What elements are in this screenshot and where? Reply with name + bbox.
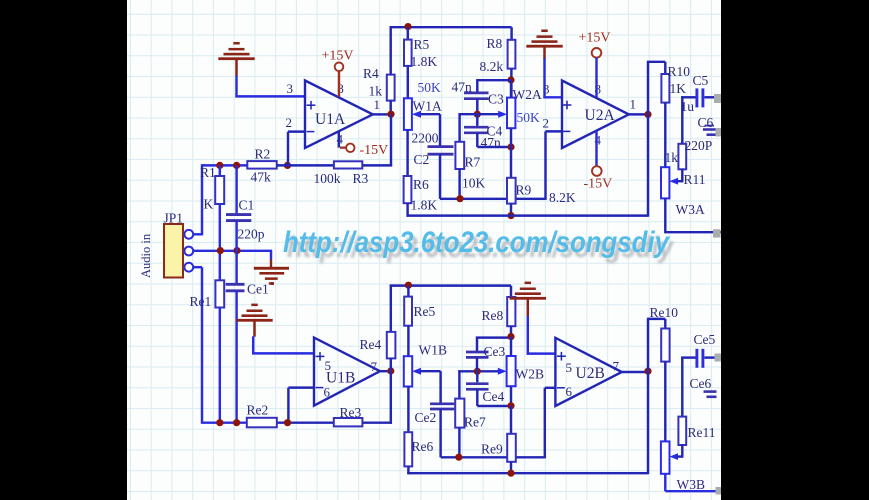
node: output of U1A <box>387 111 394 118</box>
wire: JP1 pin1 up to input node <box>193 164 248 235</box>
wire: G1 to U1A pin3 <box>235 76 305 98</box>
svg-text:W2A: W2A <box>513 87 542 102</box>
potentiometer W1A <box>404 80 442 130</box>
op-amp U1A <box>286 81 381 149</box>
JP1 pin 2 <box>184 247 193 256</box>
svg-text:R2: R2 <box>255 147 271 162</box>
resistor R3 <box>314 161 369 186</box>
svg-text:U2B: U2B <box>576 365 605 382</box>
svg-text:R1: R1 <box>200 165 216 180</box>
node: R7 bottom on link wire <box>456 195 463 202</box>
resistor Re9 <box>481 406 516 473</box>
node: rail/U1B pin6 <box>284 419 291 426</box>
wire: output node down to R3 <box>390 114 392 166</box>
capacitor C4 <box>464 114 503 150</box>
svg-text:Re5: Re5 <box>414 304 436 319</box>
svg-text:2: 2 <box>543 116 550 131</box>
capacitor Ce4 <box>466 371 511 406</box>
svg-text:W1A: W1A <box>413 99 442 114</box>
svg-text:Ce5: Ce5 <box>694 332 716 347</box>
power port +15V (U2A pin 8) <box>579 30 611 97</box>
svg-text:5: 5 <box>566 360 573 375</box>
node: U2B output <box>644 368 651 375</box>
svg-text:C5: C5 <box>693 73 709 88</box>
svg-text:C2: C2 <box>414 152 430 167</box>
resistor R7 <box>455 113 485 199</box>
wire: G3 to U2A pin3 <box>543 58 562 98</box>
capacitor Ce6 <box>690 376 717 397</box>
svg-text:3: 3 <box>543 81 550 96</box>
svg-text:1: 1 <box>630 96 637 111</box>
ground G5 (earth style, at pin2 net) <box>254 251 289 285</box>
svg-text:1u: 1u <box>681 99 695 114</box>
capacitor Ce2 <box>415 404 455 425</box>
wire: Re3 to U1B output node <box>362 421 392 423</box>
svg-text:U2A: U2A <box>585 107 616 124</box>
resistor R8 <box>480 27 516 97</box>
node: C1 top <box>233 162 240 169</box>
svg-text:Re9: Re9 <box>481 442 503 457</box>
svg-text:220p: 220p <box>238 226 265 241</box>
svg-text:http://asp3.6to23.com/songsdiy: http://asp3.6to23.com/songsdiy <box>283 226 670 259</box>
svg-text:Re8: Re8 <box>482 308 504 323</box>
svg-text:Re10: Re10 <box>650 305 679 320</box>
resistor R10 <box>647 62 690 167</box>
svg-text:10K: 10K <box>462 176 486 191</box>
node: C1/Ce1 mid at pin2 wire <box>233 247 240 254</box>
wire: U1B output to node <box>380 370 388 372</box>
svg-text:R11: R11 <box>684 172 706 187</box>
svg-text:-15V: -15V <box>584 176 613 191</box>
wire: wiper line Re7 top to W2B wiper <box>458 370 500 372</box>
svg-text:R3: R3 <box>353 171 369 186</box>
svg-text:Re1: Re1 <box>190 294 212 309</box>
JP1 pin 3 <box>184 263 193 272</box>
wire: U2B output feedback down to rail <box>647 319 649 474</box>
svg-text:Re2: Re2 <box>247 403 269 418</box>
wire: W3A bottom out to right edge <box>665 198 721 233</box>
wire: U2A output feedback down to rail <box>647 62 649 217</box>
JP1 pin 1 <box>184 230 193 239</box>
capacitor Ce3 <box>466 337 505 372</box>
power port -15V (U1A pin 4) <box>339 132 388 158</box>
wire: feedback rail (top section) <box>407 214 649 216</box>
resistor Re1 <box>190 280 225 424</box>
right edge artifact blobs <box>713 94 721 495</box>
svg-text:7: 7 <box>613 358 620 373</box>
svg-text:47n: 47n <box>452 80 473 95</box>
svg-text:1k: 1k <box>369 84 383 99</box>
node: W2B bottom / Ce4 <box>507 402 514 409</box>
svg-text:R8: R8 <box>487 36 503 51</box>
resistor R5 <box>404 27 437 98</box>
node: Ce3/Ce4 midpoint <box>474 368 481 375</box>
ground rail (Re2/Re3 row) <box>247 421 334 423</box>
ground G4 (U2B input ground) <box>510 282 546 317</box>
svg-text:47k: 47k <box>251 170 272 185</box>
wire: wiper line R7 top to W2A wiper <box>459 113 501 115</box>
svg-text:W3A: W3A <box>676 202 705 217</box>
svg-text:6: 6 <box>324 385 331 400</box>
svg-text:Ce1: Ce1 <box>247 281 269 296</box>
wire: W1A wiper to C2 <box>420 114 440 146</box>
svg-text:Ce4: Ce4 <box>483 389 505 404</box>
svg-text:1: 1 <box>374 97 381 112</box>
svg-text:R7: R7 <box>465 155 481 170</box>
svg-text:K: K <box>204 197 214 212</box>
wire: Ce3 top to Re8 bottom node <box>476 336 511 338</box>
potentiometer W2B <box>498 337 544 406</box>
power port -15V (U2A pin 4) <box>584 131 613 192</box>
wire: W1B wiper to Ce2 <box>420 371 441 403</box>
op-amp U2A <box>543 81 637 149</box>
svg-text:Audio in: Audio in <box>139 233 153 278</box>
svg-text:2: 2 <box>286 115 293 130</box>
connector JP1 <box>139 211 193 279</box>
svg-text:Ce2: Ce2 <box>415 410 437 425</box>
capacitor Ce1 <box>226 281 274 424</box>
node: Re8 bottom / Ce3 / W2B top <box>507 333 514 340</box>
node: top rail / R5 <box>404 23 411 30</box>
resistor Re10 <box>647 305 678 441</box>
svg-text:R6: R6 <box>413 177 429 192</box>
svg-text:W3B: W3B <box>677 477 706 492</box>
wire: R3 to output node <box>362 164 392 166</box>
wire: C2 bottom to lower link <box>440 154 546 199</box>
wire: U2A pin2 feedback <box>546 131 563 200</box>
capacitor Ce5 <box>681 332 715 368</box>
wire: W3B bottom out to right edge <box>665 474 721 491</box>
wire: bottom top-rail <box>390 284 511 286</box>
wire: output node up through R4 to top rail <box>389 26 391 111</box>
ground G1 (input ground, top left) <box>218 42 254 76</box>
node: U2A output <box>644 111 651 118</box>
svg-text:C6: C6 <box>698 115 714 130</box>
svg-text:1.8K: 1.8K <box>411 198 438 213</box>
node: W2A bottom / C4 link <box>507 143 514 150</box>
svg-text:Ce6: Ce6 <box>690 376 712 391</box>
svg-text:+15V: +15V <box>579 30 611 45</box>
wire: R2 to R3 <box>277 164 334 166</box>
wire: Ce2 bottom to lower link <box>441 409 545 457</box>
wire: W2A top/bottom pins <box>510 80 512 147</box>
resistor Re5 <box>404 286 435 357</box>
wire: G4 to U2B pin5 <box>527 316 556 355</box>
resistor Re11 <box>677 357 716 457</box>
resistor R2 <box>247 147 276 185</box>
left black pillar <box>0 0 127 500</box>
svg-text:6: 6 <box>566 384 573 399</box>
op-amp U2B <box>555 338 621 406</box>
potentiometer W1B <box>404 342 447 386</box>
resistor Re8 <box>482 286 516 338</box>
svg-text:7: 7 <box>371 359 378 374</box>
wire: U1A output to node <box>373 113 389 115</box>
svg-text:C3: C3 <box>488 92 504 107</box>
right black pillar <box>721 0 869 500</box>
svg-text:Ce3: Ce3 <box>484 344 506 359</box>
wire: U1B pin6 to ground rail <box>288 388 314 423</box>
capacitor C1 <box>226 165 265 283</box>
svg-text:220P: 220P <box>685 138 713 153</box>
svg-text:Re6: Re6 <box>412 439 434 454</box>
node: U1B output <box>387 367 394 374</box>
resistor R4 <box>363 66 395 101</box>
svg-text:+15V: +15V <box>322 48 354 63</box>
potentiometer W3B <box>661 441 705 492</box>
resistor R11 <box>665 142 706 187</box>
svg-text:100k: 100k <box>314 171 341 186</box>
svg-text:8.2k: 8.2k <box>480 59 504 74</box>
wire: bottom feedback rail <box>407 472 648 474</box>
svg-text:U1A: U1A <box>315 111 346 128</box>
svg-text:3: 3 <box>287 81 294 96</box>
node: Re7 bottom on link wire <box>455 454 462 461</box>
svg-text:5: 5 <box>325 358 332 373</box>
node: rail/Ce1 <box>233 419 240 426</box>
node: R2 right / U1A pin2 <box>284 162 291 169</box>
op-amp U1B <box>314 338 380 406</box>
wire: U2A output to node <box>629 113 649 115</box>
node: R1/Re1 mid at pin2 wire <box>217 247 224 254</box>
svg-text:R5: R5 <box>414 37 430 52</box>
schematic sheet background <box>127 0 721 500</box>
wire: U1B output down to Re3 <box>390 371 392 424</box>
svg-text:8.2K: 8.2K <box>549 190 576 205</box>
wire: G2 to U1B pin5 <box>252 336 314 354</box>
resistor Re4 <box>360 285 396 372</box>
power port +15V (U1A pin 8) <box>322 48 354 96</box>
svg-text:R10: R10 <box>668 64 691 79</box>
svg-text:Re3: Re3 <box>340 405 362 420</box>
svg-text:JP1: JP1 <box>164 211 184 226</box>
capacitor C6 <box>685 115 717 153</box>
resistor Re2 <box>247 403 277 428</box>
svg-text:1k: 1k <box>665 150 679 165</box>
capacitor C5 <box>681 73 716 143</box>
capacitor C3 <box>452 80 505 107</box>
wire: JP1 pin2 to C1/Ce1 node <box>193 250 272 252</box>
node: Re5 top <box>405 282 412 289</box>
svg-text:50K: 50K <box>517 110 541 125</box>
ground G3 (U2A input ground) <box>526 30 562 60</box>
ground G2 (U1B input ground) <box>236 304 272 337</box>
wire: C3 top to R8/W2A node <box>476 80 511 92</box>
node: rail/Re1 <box>216 419 223 426</box>
svg-text:2200: 2200 <box>412 131 439 146</box>
node: R1 top <box>216 162 223 169</box>
wire: top rail <box>390 26 512 28</box>
potentiometer W3A <box>661 167 705 217</box>
svg-text:R9: R9 <box>516 183 532 198</box>
svg-text:-15V: -15V <box>360 143 389 158</box>
svg-text:C1: C1 <box>239 198 255 213</box>
svg-text:1.8K: 1.8K <box>411 54 438 69</box>
svg-text:Re7: Re7 <box>464 415 486 430</box>
node: Re9 bottom on rail <box>507 470 514 477</box>
resistor R6 <box>404 130 438 217</box>
svg-text:W1B: W1B <box>419 342 448 357</box>
resistor R1 <box>200 165 224 280</box>
resistor Re3 <box>334 405 363 426</box>
svg-text:R4: R4 <box>363 66 379 81</box>
wire: C4 bottom to W2A bottom node <box>477 133 511 147</box>
svg-text:50K: 50K <box>418 80 442 95</box>
resistor Re7 <box>455 370 486 457</box>
node: C3/C4 midpoint on wiper line <box>474 111 481 118</box>
resistor Re6 <box>404 387 433 475</box>
resistor R9 <box>507 147 576 216</box>
svg-text:1K: 1K <box>670 81 687 96</box>
wire: JP1 pin3 down to ground rail <box>193 267 248 424</box>
wire: U2B output to node <box>622 371 649 373</box>
svg-text:W2B: W2B <box>516 367 545 382</box>
node: R9 bottom on feedback rail <box>507 212 514 219</box>
capacitor C2 <box>412 131 454 168</box>
wire: U1A pin2 down to node <box>288 132 305 166</box>
svg-text:Re4: Re4 <box>360 337 382 352</box>
wire: U2B pin6 feedback <box>545 388 556 459</box>
node: R8 bottom / C3 top / W2A top <box>507 76 514 83</box>
potentiometer W2A <box>498 87 542 128</box>
wire: C3 bottom to mid node <box>476 99 478 112</box>
svg-text:Re11: Re11 <box>688 425 716 440</box>
